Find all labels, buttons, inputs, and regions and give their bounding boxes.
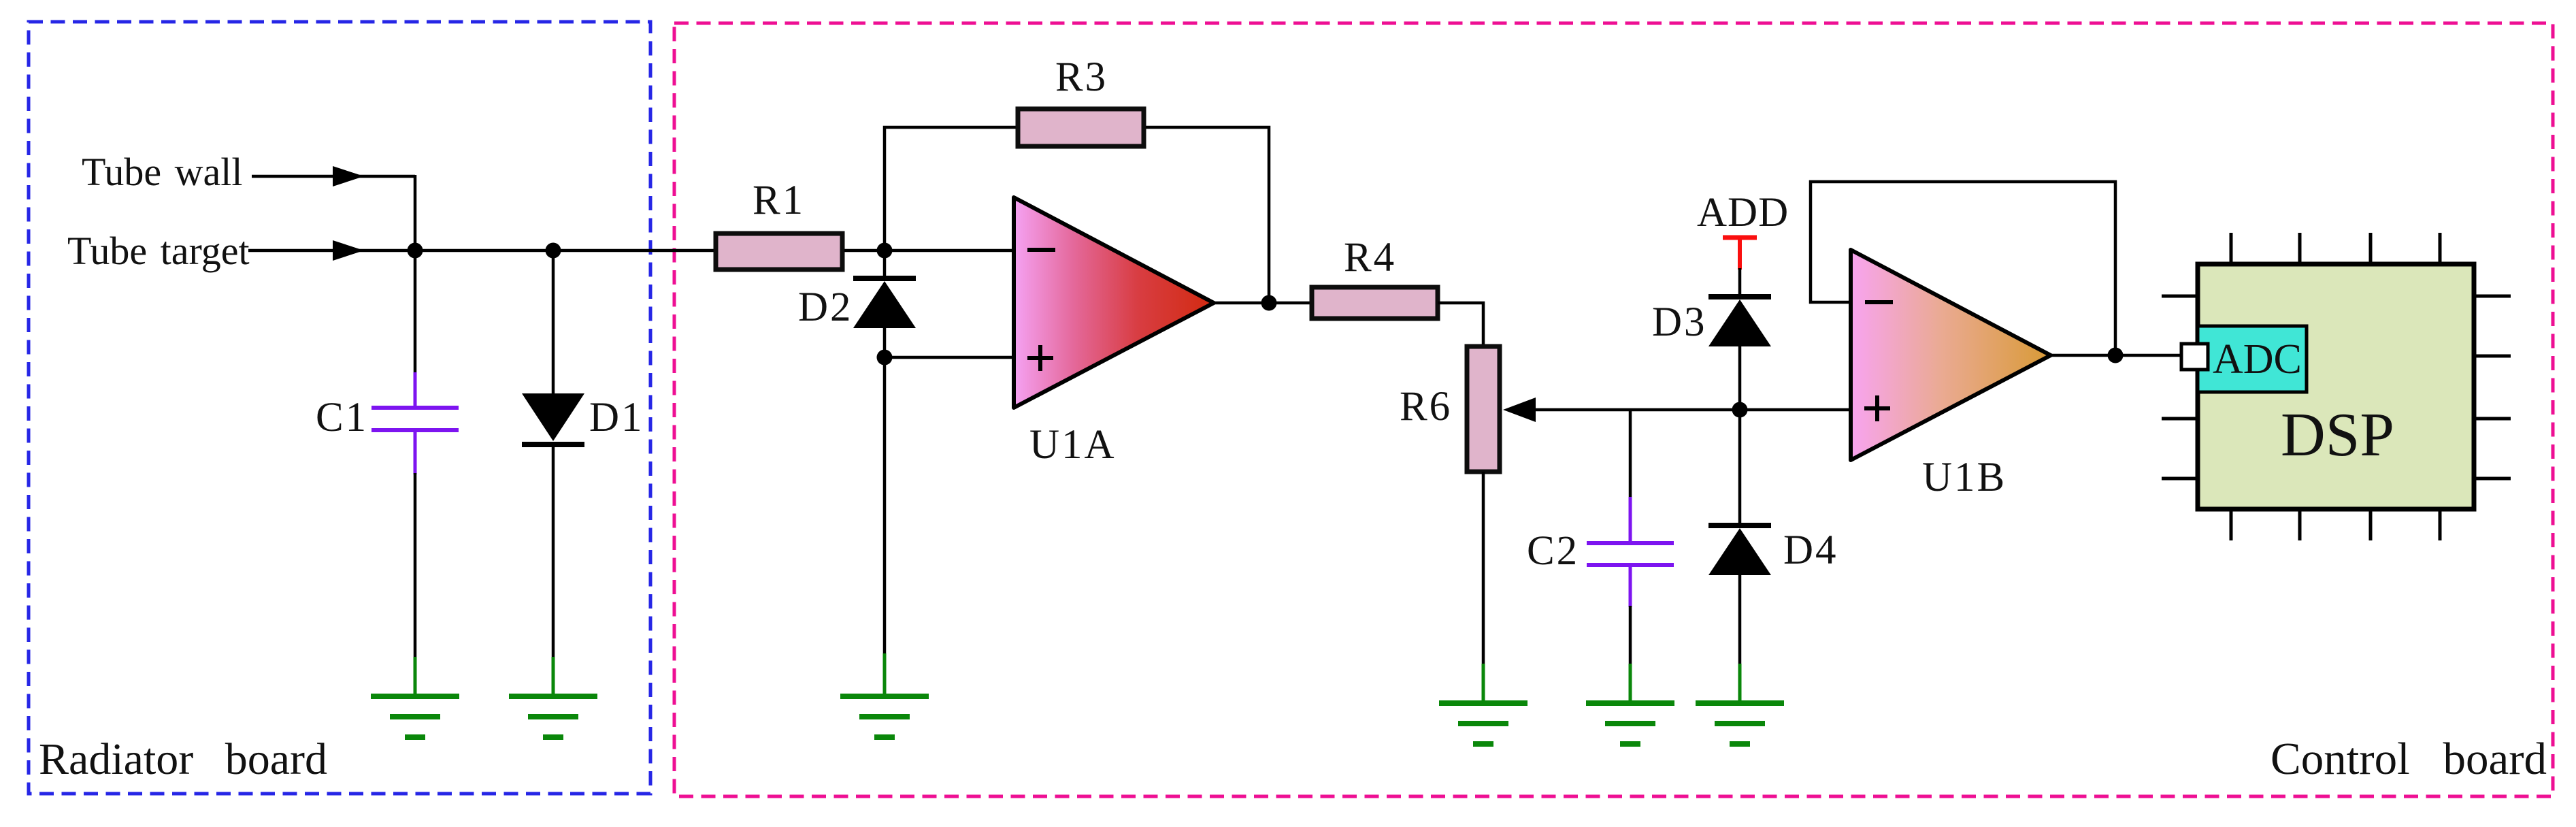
resistor R4 [1312,287,1438,319]
op-amp U1B minus symbol [1865,300,1893,304]
wire R4 to R6 top [1438,303,1483,346]
svg-text:Tube wall: Tube wall [82,150,243,194]
DSP pins right [2474,296,2511,479]
svg-text:D3: D3 [1652,299,1707,345]
wire plus node to ground [883,357,887,655]
op-amp U1A [1014,197,1214,408]
wire D4 to ground [1738,575,1742,665]
resistor R1 [716,233,842,270]
diode D2 [853,278,916,328]
node junction dot tube wall/target [408,243,423,259]
wire D2 anode to plus node [883,328,887,357]
node junction dot U1A output [1261,295,1277,311]
wire D1 to ground [552,444,555,658]
DSP pins top [2231,233,2440,264]
svg-text:ADC: ADC [2213,336,2302,383]
ground C2 [1586,664,1674,744]
op-amp U1B [1851,250,2051,460]
wire wiper to U1B plus [1532,408,1849,412]
ground D4 [1696,664,1784,744]
wire D1 branch upper [552,250,555,395]
svg-text:D2: D2 [798,285,853,330]
op-amp U1B plus symbol [1864,395,1890,421]
wire C1 branch upper [414,250,417,374]
wire C2 to ground [1629,606,1632,665]
wire D3 anode to node [1738,346,1742,410]
capacitor C1 [371,372,459,474]
svg-text:C1: C1 [316,395,368,440]
wire C2 branch upper [1629,410,1632,498]
ground D1 [509,657,597,737]
ground R6 [1439,664,1528,744]
wire R3 to output node [1146,127,1269,303]
wire U1A output [1214,302,1312,305]
power ADD symbol [1723,238,1757,270]
svg-text:U1A: U1A [1029,422,1117,468]
svg-text:ADD: ADD [1697,190,1789,236]
svg-text:C2: C2 [1527,528,1579,574]
wire U1B feedback loop [1811,182,2115,354]
wire ADD to D3 [1738,268,1742,297]
arrow into R6 wiper [1503,398,1536,422]
wire tube wall horizontal [252,175,415,178]
wire node to D4 [1738,410,1742,524]
node junction dot D1 branch [546,243,561,259]
svg-text:R4: R4 [1344,235,1396,280]
svg-text:Control board: Control board [2270,734,2547,784]
svg-text:D4: D4 [1783,528,1838,573]
op-amp U1A plus symbol [1027,345,1053,371]
Control board outline [674,23,2553,796]
node junction dot U1B output [2108,348,2124,363]
diode D1 [522,393,584,444]
wire tube wall vertical drop [414,175,417,250]
ADC input pad [2181,344,2208,370]
Radiator board outline [29,22,650,794]
wire R6 bottom to ground [1482,472,1485,665]
ground U1A [840,653,929,737]
DSP pins bottom [2231,509,2440,540]
node junction dot R1/D2/R3 [877,243,893,259]
ADC block [2198,326,2307,392]
wire feedback up to R3 [885,127,1016,250]
diode D4 [1708,525,1771,575]
wire inverting input U1A [885,249,1012,253]
wire tube target to R1 [248,249,714,253]
wire R1 to D2 node [844,249,885,253]
svg-text:R6: R6 [1400,384,1452,429]
resistor R3 [1018,109,1144,146]
diode D3 [1708,297,1771,346]
svg-text:R3: R3 [1055,54,1108,100]
node junction dot U1A plus [877,350,893,366]
capacitor C2 [1587,497,1674,607]
wire non-inverting input U1A [885,356,1012,359]
node junction dot D3/D4 [1732,402,1748,418]
svg-text:R1: R1 [753,178,805,223]
arrow on tube target wire [333,240,364,261]
svg-text:Radiator board: Radiator board [39,734,327,784]
arrow on tube wall wire [333,166,364,187]
svg-text:U1B: U1B [1922,455,2007,500]
ground C1 [371,657,459,737]
wire U1B output to ADC [2051,354,2183,357]
op-amp U1A minus symbol [1027,248,1055,252]
wire C1 to ground [414,473,417,658]
DSP pins left [2162,296,2198,479]
svg-text:Tube target: Tube target [67,229,250,273]
DSP chip body [2198,264,2474,509]
wire D2 node to cathode [883,250,887,279]
svg-text:D1: D1 [589,395,644,440]
svg-text:DSP: DSP [2281,400,2394,469]
resistor R6 [1467,346,1500,472]
